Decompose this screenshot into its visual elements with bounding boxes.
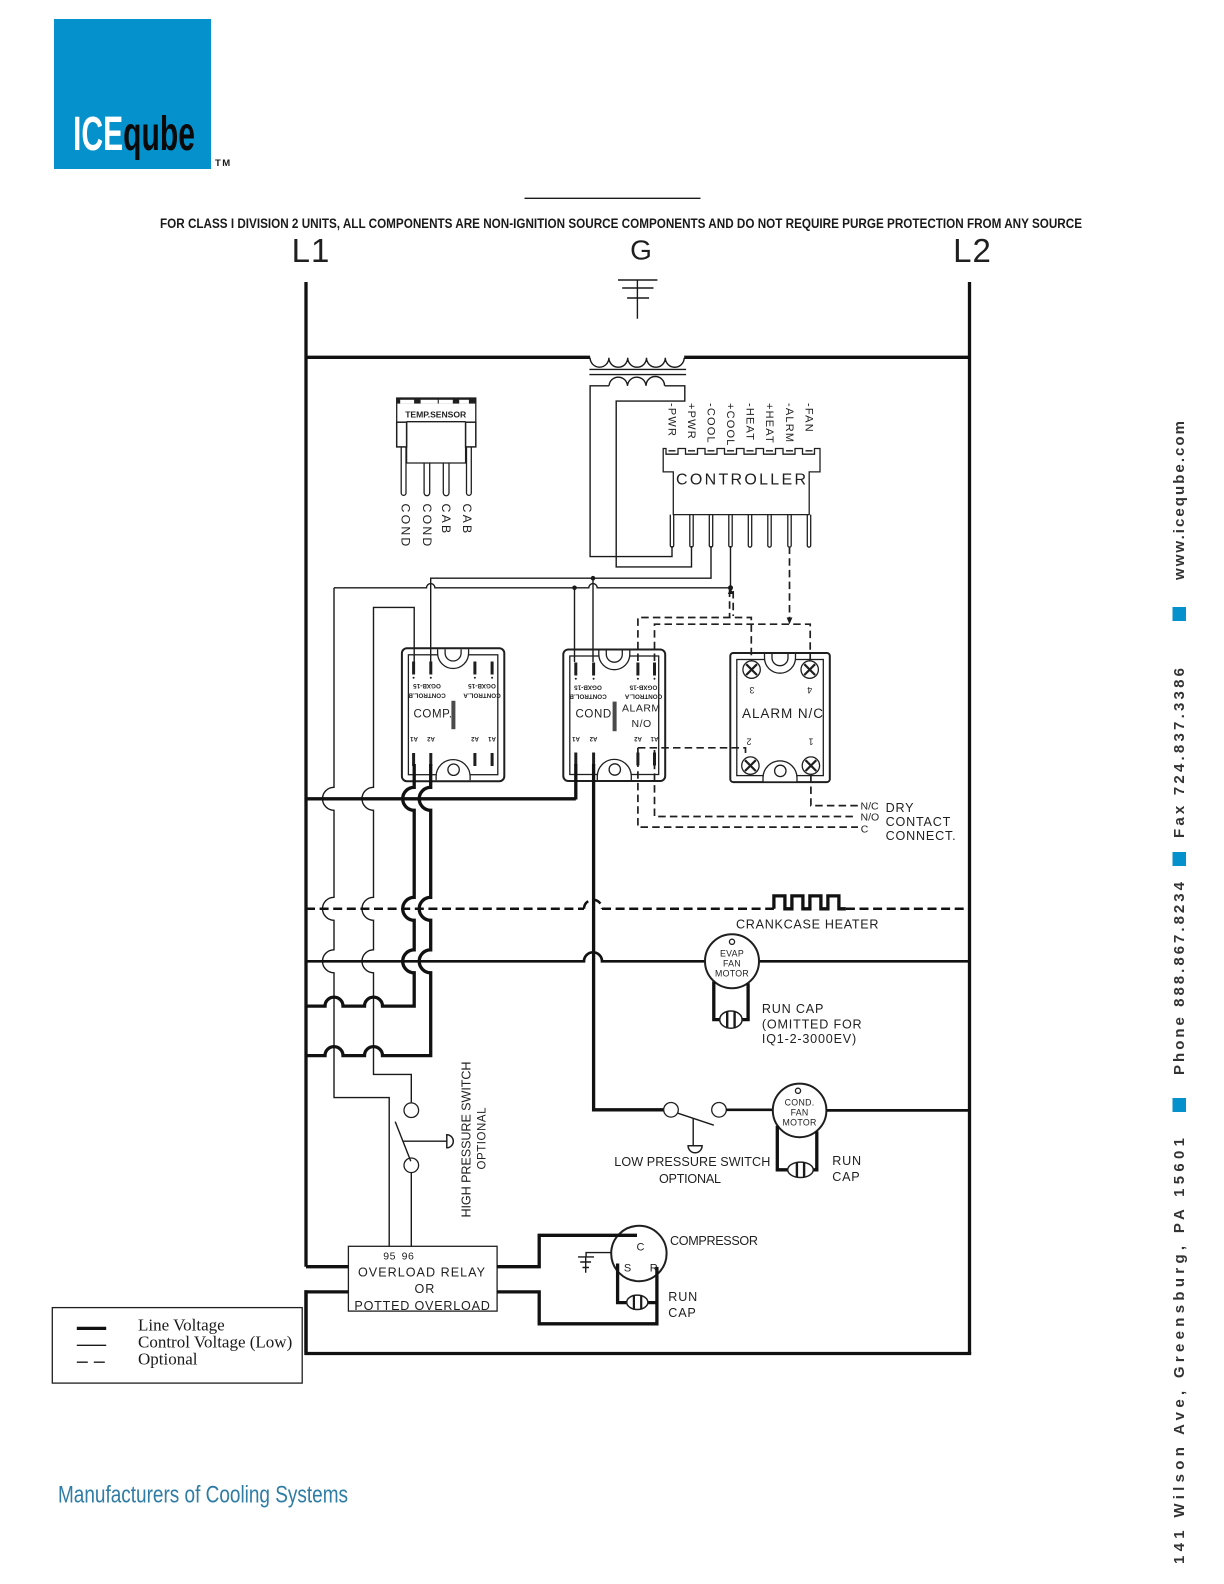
- svg-text:OGXB-15: OGXB-15: [468, 682, 496, 689]
- svg-text:DRY: DRY: [886, 801, 915, 815]
- strip blue square 3: [1173, 607, 1187, 621]
- LP switch blade: [678, 1113, 714, 1125]
- T1 core: [589, 369, 686, 374]
- svg-text:C: C: [861, 823, 869, 835]
- wire overload left output to bottom bus: [306, 1292, 348, 1352]
- L1 bus wire: [304, 282, 307, 1267]
- HP switch blade: [395, 1122, 411, 1162]
- svg-text:A1: A1: [572, 735, 580, 741]
- compressor motor: [611, 1226, 666, 1281]
- svg-text:141 Wilson Ave, Greensburg, PA: 141 Wilson Ave, Greensburg, PA 15601: [1171, 1138, 1188, 1564]
- svg-text:CONTACT: CONTACT: [886, 815, 952, 829]
- svg-text:CAB: CAB: [439, 504, 453, 536]
- wire T1 secondary right lead to controller pin2: [616, 386, 691, 567]
- svg-text:N/O: N/O: [861, 811, 880, 823]
- svg-text:L1: L1: [292, 232, 331, 269]
- COMP mount hole: [448, 764, 459, 775]
- svg-text:OGXB-15: OGXB-15: [574, 683, 602, 690]
- controller pin 8: [807, 515, 810, 548]
- svg-text:S: S: [624, 1262, 631, 1274]
- bottom bus wire: [304, 1352, 971, 1355]
- COMP bottom mount: [436, 760, 470, 780]
- ALARM N/C top U notch: [765, 654, 796, 673]
- COMP inner shell: [408, 655, 497, 775]
- svg-text:FAN: FAN: [723, 959, 741, 969]
- relay ALARM N/C: [730, 653, 830, 782]
- LP switch contact circles: [664, 1103, 679, 1118]
- controller pin 4: [729, 515, 732, 548]
- dashed wire +COOL tap down to alarm net (double): [730, 590, 734, 618]
- cond fan motor M2: [773, 1084, 827, 1138]
- controller upper housing with castellated edge: [663, 449, 820, 515]
- controller pin 3: [709, 515, 712, 548]
- wire L1 feed to COND relay input: [306, 764, 576, 800]
- T1 primary winding: [590, 358, 684, 367]
- L2 bus wire: [968, 282, 971, 1354]
- svg-text:-COOL: -COOL: [705, 403, 717, 444]
- svg-text:RUN: RUN: [668, 1290, 698, 1304]
- evap fan motor M1: [705, 934, 759, 988]
- svg-text:+COOL: +COOL: [724, 403, 736, 447]
- svg-text:L2: L2: [953, 232, 992, 269]
- svg-text:A2: A2: [589, 735, 597, 741]
- svg-text:CAB: CAB: [460, 504, 474, 536]
- dashed wire alarm NO coil pin3 to alarm NC terminal 3: [638, 618, 751, 662]
- LP switch actuator: [692, 1118, 694, 1145]
- svg-text:LOW PRESSURE SWITCH: LOW PRESSURE SWITCH: [614, 1155, 770, 1169]
- T1 secondary winding: [609, 377, 665, 386]
- ALARM N/C screw terminal 4: [801, 661, 818, 678]
- svg-text:ALARM N/C: ALARM N/C: [742, 706, 823, 721]
- wire T1 secondary left lead to controller pin1: [590, 386, 672, 557]
- temp sensor pin 4: [467, 447, 472, 495]
- COMP indicator bar: [451, 701, 455, 729]
- svg-text:CONTROL.B: CONTROL.B: [408, 691, 446, 698]
- wire overload to compressor R terminal via run cap loop: [497, 1267, 657, 1324]
- legend thick line sample: [77, 1327, 106, 1330]
- wire HP switch to overload terminal 96: [410, 1173, 412, 1247]
- svg-text:CAP: CAP: [668, 1306, 696, 1320]
- svg-text:www.iceqube.com: www.iceqube.com: [1171, 421, 1188, 581]
- svg-text:OVERLOAD RELAY: OVERLOAD RELAY: [358, 1265, 486, 1279]
- svg-text:CONTROL.A: CONTROL.A: [463, 691, 501, 698]
- svg-text:-PWR: -PWR: [666, 403, 678, 437]
- dashed crankcase heater line L1 to L2: [306, 908, 970, 911]
- controller pin 5: [748, 515, 751, 548]
- controller U1: [663, 403, 820, 547]
- controller pin 6: [768, 515, 771, 548]
- svg-text:COND: COND: [420, 504, 434, 549]
- capacitor cond run cap: [788, 1162, 814, 1177]
- dashed wire alarm NO output to NC terminal 2: [638, 748, 746, 757]
- svg-text:RUN CAP: RUN CAP: [762, 1002, 824, 1016]
- temp sensor left wing: [397, 422, 407, 447]
- node junction dot pin3 line / COND control: [591, 576, 596, 581]
- svg-text:3: 3: [749, 685, 754, 695]
- ALARM N/C bottom mount: [763, 761, 797, 781]
- COND top terminal pins: [574, 663, 656, 680]
- svg-text:OPTIONAL: OPTIONAL: [659, 1172, 721, 1186]
- temp sensor right wing: [466, 422, 476, 447]
- wire LP switch to cond fan motor: [726, 1108, 773, 1111]
- legend dashed line sample: [77, 1361, 108, 1363]
- svg-text:N/O: N/O: [632, 718, 652, 730]
- svg-text:G: G: [630, 235, 652, 266]
- arrowhead at -ALRM junction: [787, 618, 793, 625]
- svg-text:R: R: [650, 1262, 658, 1274]
- temp sensor pin 3: [443, 463, 449, 496]
- evap run cap loop wires: [714, 982, 748, 1020]
- COND inner shell: [570, 656, 659, 775]
- ALARM N/C screw terminal 3: [743, 661, 760, 678]
- transformer T1: [589, 358, 691, 567]
- COND bottom mount: [597, 759, 631, 779]
- HP switch actuator: [403, 1140, 447, 1142]
- ALARM N/C mount hole: [775, 765, 786, 776]
- svg-text:+HEAT: +HEAT: [763, 403, 775, 444]
- header rule line: [525, 197, 701, 199]
- svg-text:A1: A1: [650, 735, 658, 741]
- svg-text:2: 2: [746, 736, 751, 746]
- svg-text:ICEqube: ICEqube: [73, 108, 195, 161]
- wire L1 to overload input: [306, 1265, 348, 1268]
- COMP top terminal pins: [412, 662, 494, 679]
- svg-text:Optional: Optional: [138, 1350, 198, 1369]
- svg-text:OGXB-15: OGXB-15: [629, 683, 657, 690]
- COND bottom terminal pins: [574, 753, 656, 766]
- HP switch contact circles: [404, 1103, 419, 1118]
- ALARM N/C screw terminal 1: [802, 757, 819, 774]
- svg-text:TM: TM: [215, 158, 232, 169]
- COND top U notch: [599, 651, 630, 670]
- temp sensor pin 1: [401, 447, 406, 495]
- L1 lower segment from overload: [304, 1290, 307, 1355]
- wire control line left leg to overload terminal 95: [323, 588, 390, 1247]
- temp sensor inner body: [407, 422, 466, 463]
- svg-text:COND.: COND.: [576, 708, 616, 720]
- COND mount hole: [609, 764, 620, 775]
- svg-text:1: 1: [808, 736, 813, 746]
- svg-text:Phone 888.867.8234: Phone 888.867.8234: [1171, 881, 1188, 1075]
- svg-text:Fax 724.837.3386: Fax 724.837.3386: [1171, 668, 1188, 838]
- svg-text:-HEAT: -HEAT: [744, 403, 756, 441]
- svg-text:COND.: COND.: [785, 1098, 815, 1108]
- wire compressor S terminal to run cap: [618, 1264, 657, 1303]
- ground symbol under G: [618, 280, 657, 319]
- dashed wire controller pin7 -ALRM down to alarm net: [789, 547, 791, 622]
- svg-text:OPTIONAL: OPTIONAL: [477, 1107, 489, 1170]
- overload relay box: [348, 1246, 497, 1313]
- svg-text:A2: A2: [427, 735, 435, 741]
- svg-text:C: C: [637, 1241, 645, 1253]
- svg-text:A2: A2: [471, 735, 479, 741]
- svg-text:+PWR: +PWR: [685, 403, 697, 440]
- high pressure switch S1: [395, 1103, 453, 1246]
- node junction dot pin4 line / COND control: [572, 586, 577, 591]
- controller pin 7: [788, 515, 791, 548]
- svg-text:96: 96: [402, 1251, 415, 1263]
- COND outer shell: [563, 650, 665, 782]
- svg-text:A1: A1: [410, 735, 418, 741]
- temp sensor pin 2: [424, 463, 430, 496]
- wire control line to COMP control A via high pressure switch leg: [362, 607, 414, 1102]
- COMP bottom terminal pins: [412, 753, 494, 766]
- svg-text:ALARM: ALARM: [622, 702, 661, 714]
- svg-text:CAP: CAP: [832, 1170, 860, 1184]
- svg-text:(OMITTED FOR: (OMITTED FOR: [762, 1018, 863, 1032]
- legend thin line sample: [77, 1344, 106, 1346]
- svg-text:CONNECT.: CONNECT.: [886, 829, 957, 843]
- wire COMP relay output A2 down to L1 tap (with crossover hops): [306, 764, 431, 1056]
- low pressure switch S2: [664, 1103, 727, 1153]
- svg-text:MOTOR: MOTOR: [783, 1118, 817, 1128]
- svg-text:FOR CLASS I DIVISION 2 UNITS,: FOR CLASS I DIVISION 2 UNITS, ALL COMPON…: [160, 216, 1082, 232]
- arrowhead at +COOL dashed tap: [728, 588, 734, 594]
- COMP outer shell: [402, 648, 504, 781]
- svg-text:95: 95: [383, 1251, 396, 1263]
- svg-text:TEMP.SENSOR: TEMP.SENSOR: [405, 410, 467, 420]
- relay COND with ALARM N/O: [563, 650, 665, 782]
- svg-text:HIGH PRESSURE SWITCH: HIGH PRESSURE SWITCH: [460, 1062, 474, 1218]
- ALARM N/C outer shell: [730, 653, 830, 782]
- controller pin leader dashes: [669, 450, 813, 452]
- top bus wire L1-L2: [306, 356, 970, 359]
- wire controller pin4 +COOL control line with crossover hooks: [334, 546, 731, 662]
- relay COMP: [402, 648, 504, 781]
- temp sensor J2: [397, 398, 476, 549]
- svg-text:IQ1-2-3000EV): IQ1-2-3000EV): [762, 1032, 857, 1046]
- wire evap fan motor line: [306, 952, 970, 961]
- svg-text:OR: OR: [415, 1282, 436, 1296]
- svg-text:POTTED OVERLOAD: POTTED OVERLOAD: [354, 1299, 490, 1313]
- svg-text:COMPRESSOR: COMPRESSOR: [670, 1234, 758, 1248]
- temp sensor body outline: [397, 398, 476, 447]
- svg-text:4: 4: [807, 685, 812, 695]
- wire controller pin3 -COOL to relay control: [431, 546, 711, 662]
- svg-text:-ALRM: -ALRM: [783, 403, 795, 443]
- COND indicator bar: [613, 702, 617, 732]
- capacitor evap run cap: [720, 1011, 742, 1028]
- ALARM N/C screw terminal 2: [742, 757, 759, 774]
- node junction dot at +COOL dashed tap: [728, 585, 733, 590]
- wire COND relay output down to low pressure switch: [594, 764, 664, 1110]
- svg-text:COND: COND: [399, 504, 413, 549]
- cond run cap loop wires: [777, 1126, 817, 1170]
- svg-text:COMP.: COMP.: [414, 708, 453, 720]
- strip blue square 2: [1173, 852, 1187, 866]
- svg-text:CONTROL.B: CONTROL.B: [569, 693, 607, 700]
- svg-text:MOTOR: MOTOR: [715, 969, 749, 979]
- svg-text:Manufacturers of Cooling Syste: Manufacturers of Cooling Systems: [58, 1482, 348, 1509]
- dashed wire alarm NO output pin to C of dry contact: [638, 748, 858, 827]
- controller pin 1: [670, 515, 673, 548]
- ALARM N/C inner shell: [737, 660, 824, 776]
- wire COMP relay output A1 down to L1 tap (with crossover hops): [306, 764, 414, 1006]
- wire overload to compressor C terminal: [497, 1235, 637, 1266]
- wire cond fan motor to L2: [826, 1109, 969, 1112]
- ICEqube logo blue square: [54, 19, 232, 169]
- strip blue square 1: [1173, 1098, 1187, 1112]
- svg-text:OGXB-15: OGXB-15: [413, 682, 441, 689]
- dashed wire alarm NO coil pin4 to alarm NC terminal 4: [655, 624, 811, 661]
- svg-text:CONTROL.A: CONTROL.A: [624, 693, 662, 700]
- ground at compressor: [578, 1253, 611, 1273]
- dashed wire alarm NO output pin to N/O of dry contact: [655, 750, 857, 817]
- right contact info strip vertical: [1171, 421, 1188, 1564]
- svg-text:FAN: FAN: [791, 1108, 809, 1118]
- svg-text:CRANKCASE HEATER: CRANKCASE HEATER: [736, 918, 879, 932]
- COMP top U notch: [438, 650, 469, 669]
- capacitor compressor run cap: [627, 1295, 648, 1309]
- svg-text:CONTROLLER: CONTROLLER: [676, 472, 806, 489]
- svg-text:A2: A2: [634, 735, 642, 741]
- svg-text:-FAN: -FAN: [803, 403, 815, 433]
- svg-text:A1: A1: [488, 735, 496, 741]
- crankcase heater element: [774, 896, 846, 909]
- controller pin 2: [690, 515, 693, 548]
- svg-text:EVAP: EVAP: [720, 949, 744, 959]
- dashed wire alarm NC terminal 1 to N/C of dry contact: [811, 775, 858, 806]
- ALARM N/C screw ticks: [750, 660, 811, 776]
- legend box: [52, 1308, 302, 1384]
- svg-text:RUN: RUN: [832, 1154, 862, 1168]
